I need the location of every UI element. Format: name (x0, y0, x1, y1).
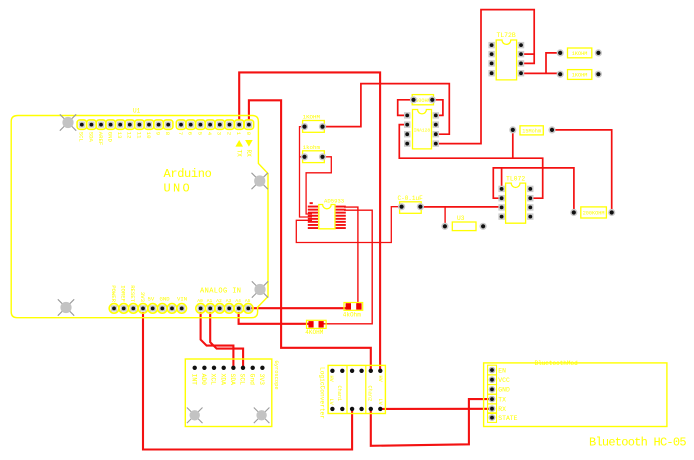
wire TL72B pin5 to resistor R6 (521, 72, 560, 74)
wire R1 left pad down to AD5933 left pads (300, 127, 313, 217)
gyroscope pad 3V3 (260, 366, 264, 370)
amplifier U2 INA128 pin 1 (404, 112, 410, 118)
gyroscope pad AD0 (202, 366, 206, 370)
bluetooth pad EN (489, 367, 496, 374)
arduino pin 9 (154, 120, 163, 129)
svg-text:3V3: 3V3 (139, 292, 146, 302)
arduino pin 5V (148, 304, 158, 314)
AD5933 right pad 14 (336, 212, 346, 214)
U3 pad 2 (480, 223, 487, 230)
logic converter top pad 4 (359, 369, 363, 373)
svg-text:INT: INT (190, 374, 197, 386)
svg-text:200KOHM: 200KOHM (583, 211, 605, 217)
arduino pin 7 (176, 120, 185, 129)
wire arduino A0 to gyroscope SDA (201, 312, 234, 368)
svg-text:A4: A4 (235, 298, 241, 304)
logic converter bottom pad 4 (359, 407, 363, 411)
AD5933 right pad 10 (336, 224, 346, 226)
arduino pin 4 (205, 120, 214, 129)
svg-text:BluetoothMod: BluetoothMod (535, 360, 579, 367)
arduino pin 10 (144, 120, 153, 129)
arduino pin SCL (77, 120, 86, 129)
wire stub TL072 pin1 (501, 168, 503, 189)
op-amp U5 TL072 body (506, 183, 526, 223)
logic converter bottom pad 2 (340, 407, 344, 411)
resistor R5 1KOHM pad 2 (595, 49, 602, 56)
wire stub to U3 left pad (444, 207, 446, 226)
svg-text:Gnd: Gnd (248, 374, 255, 386)
bluetooth pad GND (489, 386, 496, 393)
resistor R8 200KOHM (581, 207, 607, 218)
svg-text:SDA: SDA (87, 132, 94, 143)
gyroscope pad SCL (241, 366, 245, 370)
arduino pin 0 (244, 120, 253, 129)
resistor R6 1KOHM pad 1 (557, 71, 564, 78)
svg-text:GND: GND (498, 387, 510, 394)
svg-text:XCL: XCL (210, 374, 217, 386)
AD5933 left pad 4 (308, 215, 318, 217)
resistor R5 1KOHM pad 1 (557, 49, 564, 56)
op-amp U5 TL072 pin 8 (527, 186, 533, 192)
arduino pin 3 (215, 120, 224, 129)
svg-text:A1: A1 (207, 298, 213, 304)
svg-text:UNO: UNO (164, 181, 193, 195)
arduino pin A2 (215, 304, 225, 314)
amplifier U2 INA128 pin 3 (404, 131, 410, 137)
svg-text:7: 7 (177, 132, 184, 135)
svg-text:SCL: SCL (239, 374, 246, 386)
mounting hole right-lower (252, 281, 268, 297)
svg-text:0: 0 (245, 132, 252, 136)
U3 pad 1 (441, 223, 448, 230)
gyroscope pad XDA (222, 366, 226, 370)
mounting hole top-left (60, 114, 76, 130)
resistor R6 1KOHM (568, 70, 592, 80)
wire LogicConverter LV pad6 to bluetooth RX (380, 408, 491, 410)
svg-text:SCL: SCL (78, 132, 85, 142)
wire branch to 15Mohm left pad (512, 130, 514, 158)
resistor R2 1kohm pad 2 (319, 153, 326, 160)
svg-text:1: 1 (235, 132, 242, 136)
svg-text:EN: EN (498, 367, 506, 374)
wire arduino A5 to 4kOhm left pad (248, 307, 349, 309)
svg-text:VCC: VCC (498, 377, 510, 384)
gyroscope hole right (254, 408, 270, 424)
arduino pin IOREF (119, 304, 129, 314)
svg-text:A0: A0 (197, 298, 203, 304)
amplifier U2 INA128 body (413, 110, 432, 149)
svg-text:RESET: RESET (129, 285, 136, 302)
wire R3 left pad to INA128 pin1 (398, 100, 414, 116)
wire net TX from arduino pin1 to LogicConverter HV pad6 (239, 72, 380, 370)
wire AD5933 right pad to 4KOHM right pad (324, 210, 373, 324)
svg-text:Gyroscope: Gyroscope (273, 361, 279, 390)
svg-text:HV: HV (328, 376, 334, 383)
logic converter top pad 3 (350, 369, 354, 373)
AD5933 right pad 9 (336, 227, 346, 229)
AD5933 right pad 16 (336, 206, 346, 208)
resistor R2 1kohm pad 1 (301, 153, 308, 160)
AD5933 right pad 12 (336, 218, 346, 220)
op-amp U5 TL072 pin 4 (498, 213, 504, 219)
svg-text:TX: TX (498, 396, 506, 403)
op-amp U4 TL72B pin 4 (488, 70, 494, 76)
svg-text:C-0.1uF: C-0.1uF (398, 195, 424, 202)
svg-text:15Mohm: 15Mohm (522, 129, 541, 135)
wire AD5933 right pad to 4kOhm right pad (344, 207, 358, 305)
LOGIC CONVERTER MODULE (318, 365, 385, 419)
svg-text:Bluetooth HC-05: Bluetooth HC-05 (589, 435, 686, 449)
AD5933 left pad 8 (308, 227, 318, 229)
svg-text:RX: RX (498, 406, 506, 413)
op-amp U4 TL72B pin 6 (518, 60, 524, 66)
op-amp U5 TL072 pin 6 (527, 204, 533, 210)
bluetooth pin square STATE (488, 413, 497, 423)
arduino pin 8 (164, 120, 173, 129)
wire arduino A1 to gyroscope SCL (210, 312, 243, 368)
svg-text:5: 5 (196, 132, 203, 135)
gyroscope hole left (187, 408, 203, 424)
svg-text:A3: A3 (226, 298, 232, 304)
logic converter bottom pad 5 (369, 407, 373, 411)
GYROSCOPE MODULE (185, 359, 279, 427)
logic converter top pad 1 (330, 369, 334, 373)
AD5933 right pad 11 (336, 221, 346, 223)
gyroscope outline (185, 359, 271, 427)
ARDUINO UNO BOARD (11, 108, 268, 318)
op-amp U5 TL072 pin 1 (498, 186, 504, 192)
AD5933 right pad 15 (336, 209, 346, 211)
bluetooth pin square TX (488, 394, 497, 404)
AD5933 pin1 marker (310, 202, 313, 204)
amplifier U2 INA128 pin 6 (433, 131, 439, 137)
op-amp U5 TL072 pin 7 (527, 195, 533, 201)
resistor R7 15Mohm pad 2 (548, 126, 555, 133)
amplifier U2 INA128 pin 2 (404, 121, 410, 127)
arduino pin GND (167, 304, 177, 314)
logic converter outline (328, 365, 385, 413)
amplifier U2 INA128 pin 4 (404, 140, 410, 146)
op-amp U4 TL72B pin 3 (488, 60, 494, 66)
svg-text:AREF: AREF (97, 132, 104, 145)
wire R3 right pad to INA128 pin8 row (432, 100, 443, 116)
wire 15Mohm right pad to 100KOHM right pad (552, 130, 612, 213)
arduino pin AREF (96, 120, 105, 129)
svg-text:TL072: TL072 (506, 175, 525, 182)
wire stub R2 left pad (300, 156, 305, 158)
arduino pin GND (158, 304, 168, 314)
svg-text:4: 4 (206, 132, 213, 136)
svg-text:1KOHM: 1KOHM (303, 114, 321, 121)
logic converter bottom pad 1 (330, 407, 334, 411)
mounting hole right-upper (252, 173, 268, 189)
svg-text:50OHM: 50OHM (415, 98, 431, 104)
arduino pin A3 (224, 304, 234, 314)
arduino pin A5 (244, 304, 254, 314)
svg-text:U1: U1 (133, 108, 141, 115)
resistor R3 50OHM pad 2 (429, 96, 436, 103)
wire INA128 pin2 long run to TL072 pin6 (399, 125, 542, 199)
RX marker triangle (245, 140, 253, 147)
arduino pin 12 (125, 120, 134, 129)
svg-text:VIN: VIN (177, 296, 187, 303)
wire arduino A4 to 4KOHM left pad (239, 312, 310, 324)
svg-text:8: 8 (164, 132, 171, 135)
bluetooth outline (484, 363, 667, 427)
gyroscope pad SDA (231, 366, 235, 370)
svg-text:TX: TX (235, 150, 242, 158)
logic converter bottom pad 6 (378, 407, 382, 411)
arduino pin SDA (87, 120, 96, 129)
op-amp U4 TL72B pin 8 (518, 42, 524, 48)
arduino pin RESET (129, 304, 139, 314)
resistor R9 4kOhm SMD (344, 303, 363, 311)
wire R2 right pad to AD5933 left pads (306, 157, 331, 214)
svg-text:3V3: 3V3 (258, 374, 265, 386)
bluetooth pin square EN (488, 365, 497, 375)
wire C1 left pad loop to AD5933 left pads (296, 207, 401, 243)
logic converter top pad 6 (378, 369, 382, 373)
svg-text:2: 2 (225, 132, 232, 135)
gyroscope pad Gnd (251, 366, 255, 370)
svg-text:Chan2: Chan2 (367, 386, 373, 402)
svg-text:GND: GND (160, 296, 171, 303)
svg-text:SDA: SDA (229, 374, 236, 386)
arduino pin 11 (135, 120, 144, 129)
amplifier U2 INA128 pin 7 (433, 121, 439, 127)
svg-text:LogicConverter: LogicConverter (318, 367, 325, 419)
resistor R3 50OHM pad 1 (410, 96, 417, 103)
wire TL072 pin2 feedback to 100KOHM left pad (493, 168, 574, 213)
bluetooth pin square VCC (488, 375, 497, 385)
svg-text:XDA: XDA (219, 374, 226, 386)
svg-text:5V: 5V (148, 296, 155, 303)
mounting hole bottom-left (58, 299, 74, 315)
capacitor C1 0.1uF (400, 202, 422, 214)
svg-text:AD5933: AD5933 (324, 198, 344, 205)
svg-text:A2: A2 (216, 298, 222, 304)
svg-text:9: 9 (155, 132, 162, 135)
AD5933 left pad 2 (308, 209, 318, 211)
wire LogicConverter LV pad5 to bluetooth TX (371, 399, 491, 446)
arduino pin A4 (234, 304, 244, 314)
resistor R8 200KOHM pad 1 (570, 209, 577, 216)
svg-text:Chan1: Chan1 (336, 386, 342, 402)
op-amp U4 TL72B pin 7 (518, 51, 524, 57)
svg-text:ANALOG IN: ANALOG IN (200, 288, 241, 296)
arduino pin 6 (186, 120, 195, 129)
wire INA128 pin8 loop to TL72B pin6 (436, 10, 534, 144)
resistor R7 15Mohm (520, 126, 543, 135)
svg-text:HV: HV (377, 376, 383, 383)
resistor R5 1KOHM (568, 48, 592, 58)
arduino pin POWER (109, 304, 119, 314)
resistor R10 4KOHM SMD (307, 320, 327, 328)
bluetooth pin square RX (488, 404, 497, 414)
op-amp U4 TL72B pin 2 (488, 51, 494, 57)
svg-text:U3: U3 (457, 215, 465, 222)
bluetooth pad RX (489, 405, 496, 412)
op-amp U4 TL72B pin 5 (518, 70, 524, 76)
amplifier U2 INA128 pin 8 (433, 112, 439, 118)
svg-text:A5: A5 (245, 298, 251, 304)
arduino pin A0 (196, 304, 206, 314)
gyroscope pad INT (193, 366, 197, 370)
resistor R1 1KOHM pad 2 (319, 123, 326, 130)
svg-text:12: 12 (126, 132, 133, 139)
AD5933 left pad 1 (308, 206, 318, 208)
svg-text:STATE: STATE (498, 415, 517, 422)
svg-text:11: 11 (135, 132, 142, 139)
amplifier U2 INA128 pin 5 (433, 140, 439, 146)
svg-text:1kohm: 1kohm (303, 144, 321, 151)
svg-text:4KOHM: 4KOHM (305, 329, 323, 336)
IC AD5933 SMD body (319, 205, 335, 229)
wire C1 right pad to TL072 pin3 (420, 206, 501, 208)
arduino pin 1 (235, 120, 244, 129)
logic converter bottom pad 3 (350, 407, 354, 411)
arduino pin 2 (225, 120, 234, 129)
wire stub TL72B pin7 (521, 53, 534, 55)
svg-text:AD0: AD0 (200, 374, 207, 386)
AD5933 left pad 5 (308, 218, 318, 220)
bluetooth pad VCC (489, 376, 496, 383)
AD5933 left pad 6 (308, 221, 318, 223)
arduino pin 5 (196, 120, 205, 129)
arduino pin 3V3 (138, 304, 148, 314)
op-amp U5 TL072 pin 2 (498, 195, 504, 201)
svg-text:GND: GND (107, 132, 114, 143)
op-amp U4 TL72B pin 1 (488, 42, 494, 48)
svg-text:LV: LV (328, 399, 334, 406)
bluetooth pin square GND (488, 385, 497, 395)
svg-text:3: 3 (216, 132, 223, 135)
svg-text:4kOhm: 4kOhm (343, 312, 361, 319)
wire arduino 3V3 to LogicConverter LV pad3 (143, 312, 352, 450)
wire R1 right pad to INA128 pin6 (323, 84, 450, 135)
svg-text:IOREF: IOREF (120, 285, 127, 302)
resistor R8 200KOHM pad 2 (608, 209, 615, 216)
arduino pin 13 (116, 120, 125, 129)
svg-text:LV: LV (377, 399, 383, 406)
resistor R2 1kohm (303, 151, 325, 163)
op-amp U5 TL072 pin 5 (527, 213, 533, 219)
logic converter top pad 5 (369, 369, 373, 373)
op-amp U4 TL72B body (496, 40, 516, 80)
gyroscope pad XCL (212, 366, 216, 370)
arduino pin GND (106, 120, 115, 129)
svg-text:RX: RX (245, 150, 252, 158)
arduino pin A1 (205, 304, 215, 314)
svg-text:6: 6 (187, 132, 194, 135)
BLUETOOTH MODULE (484, 360, 687, 450)
C1 pad 1 (398, 203, 405, 210)
C1 pad 2 (417, 203, 424, 210)
wire branch to resistor R5 (546, 53, 560, 74)
bluetooth pad STATE (489, 414, 496, 421)
component U3 (452, 222, 476, 231)
AD5933 left pad 7 (308, 224, 318, 226)
AD5933 right pad 13 (336, 215, 346, 217)
AD5933 left pad 3 (308, 212, 318, 214)
TX marker triangle (235, 140, 243, 147)
resistor R1 1KOHM pad 1 (301, 123, 308, 130)
logic converter top pad 2 (340, 369, 344, 373)
logic converter divider 2 (365, 365, 367, 413)
svg-text:10: 10 (145, 132, 152, 139)
svg-text:13: 13 (116, 132, 123, 139)
svg-text:TL72B: TL72B (497, 32, 516, 39)
svg-text:1KOHM: 1KOHM (572, 73, 588, 79)
resistor R6 1KOHM pad 2 (595, 71, 602, 78)
bluetooth pad TX (489, 396, 496, 403)
resistor R1 1KOHM (303, 121, 325, 133)
op-amp U5 TL072 pin 3 (498, 204, 504, 210)
resistor R3 50OHM (412, 95, 433, 105)
arduino board outline (11, 116, 268, 318)
svg-text:INA128: INA128 (414, 128, 431, 134)
logic converter divider 1 (346, 365, 348, 413)
resistor R7 15Mohm pad 1 (509, 126, 516, 133)
wire net RX from arduino pin0 to LogicConverter HV pad5 (249, 100, 371, 371)
svg-text:1KOHM: 1KOHM (572, 51, 588, 57)
svg-text:POWER: POWER (110, 285, 117, 302)
svg-text:Arduino: Arduino (164, 167, 212, 181)
arduino pin VIN (177, 304, 187, 314)
